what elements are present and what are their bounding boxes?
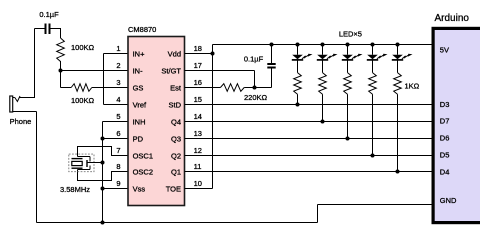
svg-text:13: 13	[194, 129, 202, 138]
wire pin8 OSC2 route	[78, 170, 129, 181]
svg-text:1KΩ: 1KΩ	[405, 82, 420, 91]
svg-text:6: 6	[116, 129, 120, 138]
node Vss junction	[101, 187, 105, 191]
wire pin16 Est stub	[185, 87, 221, 89]
wire Vdd TOE riser	[212, 45, 214, 189]
wire GS resistor to pin 3	[92, 87, 128, 89]
LED D5	[392, 45, 413, 73]
wire ground rail bottom	[37, 222, 318, 224]
wire cap to resistor	[60, 28, 62, 38]
phone jack J1	[10, 96, 35, 112]
node IN- junction	[59, 69, 63, 73]
node resonator ground junction	[101, 161, 105, 165]
svg-text:4: 4	[116, 95, 120, 104]
node Vdd junction	[211, 52, 215, 56]
capacitor C1 0.1uF input	[46, 24, 61, 35]
resistor R4 1K LED	[294, 73, 302, 95]
wire IN+ to Vref connector	[103, 54, 105, 105]
svg-text:5V: 5V	[440, 46, 449, 55]
label 100K series	[71, 43, 95, 52]
svg-text:15: 15	[194, 95, 202, 104]
node 5V rail junction 3	[346, 43, 350, 47]
wire pin1 IN+ stub	[104, 53, 129, 55]
svg-text:Phone: Phone	[10, 117, 32, 126]
svg-text:3.58MHz: 3.58MHz	[60, 185, 90, 194]
node 5V rail junction 1	[296, 43, 300, 47]
svg-text:2: 2	[116, 61, 120, 70]
node 5V rail junction 2	[321, 43, 325, 47]
wire 5V top rail	[213, 44, 432, 46]
svg-text:9: 9	[116, 179, 120, 188]
svg-text:0.1µF: 0.1µF	[244, 55, 264, 64]
node steering cap to rail	[270, 43, 274, 47]
svg-text:D4: D4	[440, 167, 450, 176]
wire Q2 to Arduino	[185, 155, 432, 157]
node output junction 5	[396, 170, 400, 174]
svg-text:11: 11	[194, 162, 202, 171]
label 100K feedback	[71, 96, 95, 105]
wire pin18 Vdd stub	[185, 53, 213, 55]
node output junction 4	[371, 154, 375, 158]
svg-text:12: 12	[194, 146, 202, 155]
svg-text:5: 5	[116, 112, 120, 121]
svg-text:Vdd: Vdd	[168, 49, 181, 58]
svg-text:100KΩ: 100KΩ	[71, 96, 95, 105]
wire LED resistor 4 down	[372, 94, 374, 155]
node 5V rail junction 5	[396, 43, 400, 47]
Arduino pin labels	[440, 46, 457, 205]
svg-text:Q2: Q2	[171, 151, 181, 160]
svg-text:7: 7	[116, 146, 120, 155]
svg-text:10: 10	[194, 179, 202, 188]
svg-text:OSC1: OSC1	[133, 151, 153, 160]
resistor R7 1K LED	[369, 73, 377, 95]
svg-text:D6: D6	[440, 134, 450, 143]
svg-text:Est: Est	[170, 83, 182, 92]
wire Q3 to Arduino	[185, 138, 432, 140]
wire pin17 StGT stub	[185, 71, 255, 88]
label Arduino	[435, 13, 470, 24]
svg-text:16: 16	[194, 78, 202, 87]
svg-text:IN+: IN+	[133, 49, 146, 58]
node output junction 3	[346, 137, 350, 141]
label 3.58MHz	[60, 185, 90, 194]
wire LED resistor 1 down	[297, 94, 299, 104]
node PD junction	[101, 137, 105, 141]
label Phone	[10, 117, 32, 126]
svg-text:TOE: TOE	[166, 184, 181, 193]
wire LED resistor 5 down	[397, 94, 399, 171]
label 220K	[244, 93, 268, 102]
pin number labels	[116, 44, 202, 188]
node output junction 1	[296, 103, 300, 107]
ceramic resonator X1 3.58MHz	[69, 154, 103, 172]
svg-text:INH: INH	[133, 117, 146, 126]
svg-text:PD: PD	[133, 134, 144, 143]
capacitor C2 0.1uF steering	[267, 45, 275, 88]
node ground rail junction	[101, 221, 105, 225]
wire phone sleeve	[13, 112, 37, 223]
IC U1 CM8870	[128, 37, 185, 206]
wire junction down to GS resistor	[61, 71, 72, 88]
wire Q1 to Arduino	[185, 171, 432, 173]
svg-text:D7: D7	[440, 117, 450, 126]
wire pin7 OSC1 route	[78, 147, 129, 157]
label CM8870	[128, 25, 156, 34]
svg-text:StD: StD	[168, 100, 181, 109]
wire LED resistor 3 down	[347, 94, 349, 138]
LED D4	[367, 45, 388, 73]
wire Est resistor to junction	[244, 87, 271, 89]
wire LED resistor 2 down	[322, 94, 324, 121]
LED D1	[292, 45, 313, 73]
resistor R8 1K LED	[394, 73, 402, 95]
svg-text:Q1: Q1	[171, 167, 181, 176]
node output junction 2	[321, 120, 325, 124]
node 5V rail junction 4	[371, 43, 375, 47]
svg-text:GND: GND	[440, 196, 457, 205]
svg-text:3: 3	[116, 78, 120, 87]
svg-text:LED×5: LED×5	[339, 29, 362, 38]
svg-text:Q3: Q3	[171, 134, 181, 143]
LED D3	[342, 45, 363, 73]
svg-text:17: 17	[194, 61, 202, 70]
svg-text:Q4: Q4	[171, 117, 181, 126]
wire phone tip to capacitor	[35, 29, 45, 99]
svg-text:D5: D5	[440, 151, 450, 160]
wire Q4 to Arduino	[185, 121, 432, 123]
svg-text:0.1µF: 0.1µF	[39, 10, 59, 19]
pin name labels	[133, 49, 182, 193]
svg-text:CM8870: CM8870	[128, 25, 156, 34]
svg-text:14: 14	[194, 112, 202, 121]
wire pin5 INH stub	[103, 121, 129, 123]
label 0.1uF steering cap	[244, 55, 264, 64]
resistor R1 100K series	[57, 38, 65, 71]
wire pin9 Vss stub	[103, 188, 129, 190]
svg-text:Vss: Vss	[133, 184, 146, 193]
Arduino board box	[433, 28, 480, 222]
svg-text:Vref: Vref	[133, 100, 147, 109]
wire pin10 TOE stub	[185, 188, 213, 190]
svg-text:Arduino: Arduino	[435, 13, 470, 24]
svg-text:100KΩ: 100KΩ	[71, 43, 95, 52]
wire pin6 PD stub	[103, 138, 129, 140]
label LEDx5	[339, 29, 362, 38]
node steering junction	[253, 86, 257, 90]
wire junction to IN-	[61, 70, 129, 72]
svg-text:1: 1	[116, 44, 120, 53]
svg-text:IN-: IN-	[133, 66, 144, 75]
resistor R6 1K LED	[344, 73, 352, 95]
wire pin4 Vref stub	[104, 104, 129, 106]
resistor R5 1K LED	[319, 73, 327, 95]
wire StD to Arduino	[185, 104, 432, 106]
label 0.1uF input cap	[39, 10, 59, 19]
resistor R2 100K feedback GS	[71, 84, 92, 92]
wire ground step to Arduino GND	[318, 205, 432, 223]
svg-text:GS: GS	[133, 83, 144, 92]
svg-text:18: 18	[194, 44, 202, 53]
svg-text:D3: D3	[440, 100, 450, 109]
LED D2	[317, 45, 338, 73]
svg-text:St/GT: St/GT	[161, 66, 181, 75]
label 1K	[405, 82, 420, 91]
svg-text:8: 8	[116, 162, 120, 171]
resistor R3 220K steering	[220, 84, 244, 92]
svg-text:OSC2: OSC2	[133, 167, 153, 176]
svg-text:220KΩ: 220KΩ	[244, 93, 268, 102]
wire INH ground riser	[102, 122, 104, 223]
